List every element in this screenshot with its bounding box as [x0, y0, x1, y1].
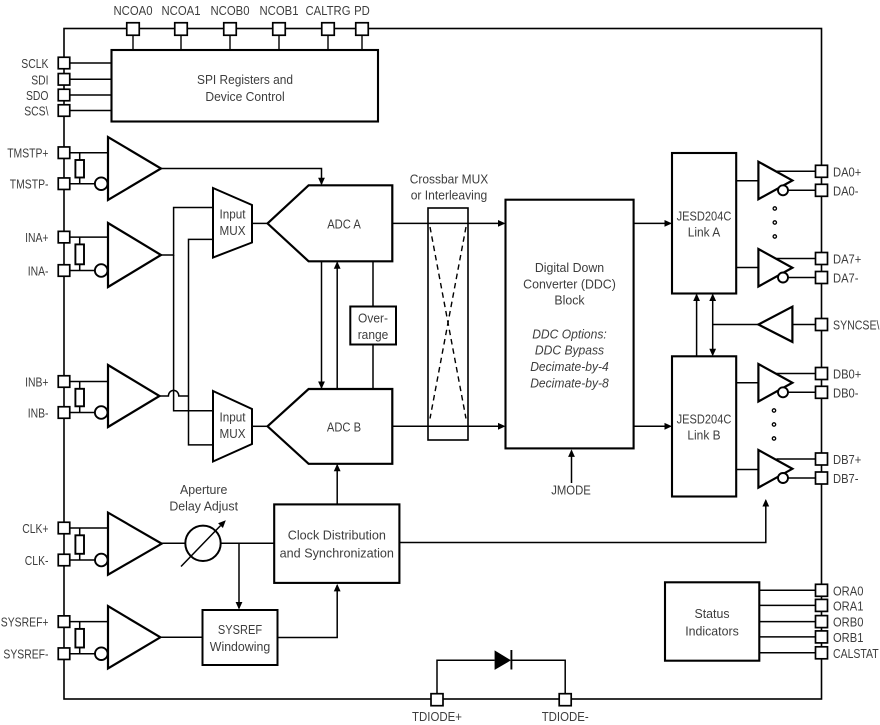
svg-text:JESD204C: JESD204C	[677, 412, 732, 427]
bubble DA7- inverted output	[778, 273, 788, 283]
wire CLK+ to buffer	[70, 527, 108, 529]
wire Status Indicators to ORA1	[759, 604, 815, 606]
svg-text:Decimate-by-8: Decimate-by-8	[530, 376, 609, 391]
svg-text:Block: Block	[554, 292, 585, 307]
wire NCOB1 stub to SPI box	[278, 35, 280, 50]
svg-text:MUX: MUX	[220, 426, 246, 441]
svg-text:CALSTAT: CALSTAT	[833, 646, 879, 661]
svg-text:SPI Registers and: SPI Registers and	[197, 72, 293, 87]
wire ADC B output to DDC block	[392, 425, 504, 427]
svg-text:ORB1: ORB1	[833, 630, 863, 645]
wire clock distribution to ADC B bottom	[336, 465, 338, 504]
bubble SYSREF- inverting input	[95, 647, 108, 660]
wire MUX B to ADC B	[252, 425, 268, 427]
wire SYSREF+ to buffer	[70, 621, 108, 623]
wire INB buffer output with crossover hop to Input MUX A and Input MUX B	[160, 390, 189, 396]
svg-text:PD: PD	[354, 3, 370, 18]
wire SYSREF- to buffer bubble	[70, 653, 95, 655]
pin CLK+	[58, 522, 70, 534]
wire INB- to buffer bubble	[70, 412, 95, 414]
wire DDC to JESD204C Link A	[634, 222, 671, 224]
block JESD204C Link B	[672, 356, 736, 496]
diode thermal diode	[495, 650, 511, 670]
svg-text:Input: Input	[220, 410, 246, 425]
pin DB7-	[816, 472, 828, 484]
svg-text:JMODE: JMODE	[551, 483, 591, 498]
wire TDIODE loop	[437, 660, 495, 694]
arrow into Clock Distribution bottom	[334, 584, 341, 592]
arrowhead of aperture delay adjust	[218, 520, 226, 528]
wire SYNCSE pin to receiver	[792, 324, 815, 326]
buffer SYSREF input	[108, 606, 160, 668]
pin SYSREF-	[58, 648, 70, 660]
svg-text:Delay Adjust: Delay Adjust	[169, 498, 238, 513]
svg-text:DB0+: DB0+	[833, 367, 861, 382]
arrow into DDC (channel A)	[498, 220, 506, 227]
wire DA7- output	[788, 277, 816, 279]
wire ADC A to Over-range	[372, 261, 374, 306]
mux Input MUX A	[213, 188, 252, 258]
svg-text:TMSTP-: TMSTP-	[10, 177, 49, 192]
arrow into DDC (channel B)	[498, 423, 506, 430]
svg-text:ADC A: ADC A	[327, 216, 361, 231]
bubble DB7- inverted output	[778, 473, 788, 483]
wire SYSREF Windowing to clock distribution	[278, 585, 338, 637]
bubble TMSTP- inverting input	[95, 177, 108, 190]
svg-text:SDI: SDI	[31, 72, 48, 87]
arrow into SYSREF Windowing top	[236, 602, 243, 610]
ellipsis dots lane A	[773, 207, 776, 210]
svg-text:SCLK: SCLK	[21, 56, 48, 71]
wire DB0- output	[788, 391, 816, 393]
resistor CLK termination	[79, 528, 81, 535]
driver DA0 output buffer	[758, 162, 792, 200]
wire INB+ to buffer	[70, 381, 108, 383]
svg-text:DB0-: DB0-	[833, 385, 859, 400]
wire DA0+ output	[777, 170, 816, 172]
pin TDIODE+	[431, 694, 443, 706]
wire SYNCSE buffer to sync net	[713, 324, 759, 326]
svg-text:INB+: INB+	[25, 375, 48, 390]
block SPI Registers and Device Control	[112, 50, 379, 122]
driver DB0 output buffer	[758, 364, 792, 402]
arrow into ADC A top	[318, 178, 325, 186]
svg-text:Link A: Link A	[688, 225, 721, 240]
wire ADC A output to DDC block	[392, 222, 504, 224]
svg-text:Digital Down: Digital Down	[535, 260, 604, 275]
svg-text:DDC Options:: DDC Options:	[532, 326, 607, 341]
buffer INB input	[108, 365, 160, 427]
ellipsis dots lane B	[772, 409, 775, 412]
pin PD	[356, 23, 369, 36]
svg-text:range: range	[358, 327, 389, 342]
svg-text:DA7-: DA7-	[833, 271, 859, 286]
svg-text:CLK-: CLK-	[25, 553, 49, 568]
wire TMSTP buffer output to ADC A top	[161, 169, 322, 185]
arrow into ADC B top	[318, 382, 325, 390]
svg-text:TMSTP+: TMSTP+	[7, 146, 48, 161]
svg-text:Clock Distribution: Clock Distribution	[288, 528, 386, 543]
wire Status Indicators to ORB1	[759, 636, 815, 638]
arrow into ADC A bottom	[334, 261, 341, 269]
svg-text:Windowing: Windowing	[210, 639, 270, 654]
pin NCOB0	[224, 23, 237, 36]
svg-text:JESD204C: JESD204C	[677, 208, 732, 223]
svg-text:NCOA1: NCOA1	[162, 3, 201, 18]
pin NCOA0	[127, 23, 140, 36]
pin INB-	[58, 407, 70, 419]
wire DB0+ output	[777, 373, 816, 375]
pin SCS\	[58, 105, 70, 117]
svg-text:DDC Bypass: DDC Bypass	[535, 343, 605, 358]
svg-text:Status: Status	[695, 606, 730, 621]
wire CLK- to buffer bubble	[70, 559, 95, 561]
svg-text:INA+: INA+	[25, 230, 48, 245]
wire DDC to JESD204C Link B	[634, 425, 671, 427]
svg-text:and Synchronization: and Synchronization	[280, 545, 394, 560]
svg-text:SYNCSE\: SYNCSE\	[833, 318, 880, 333]
svg-text:Indicators: Indicators	[685, 624, 739, 639]
svg-text:INA-: INA-	[28, 264, 49, 279]
pin DB7+	[816, 453, 828, 465]
arrow serializer clock	[762, 499, 769, 507]
pin ORB0	[816, 616, 828, 628]
resistor INB termination	[79, 382, 81, 389]
wire MUX A to ADC A	[252, 222, 268, 224]
svg-text:DB7-: DB7-	[833, 471, 859, 486]
buffer TMSTP input	[108, 137, 161, 200]
arrow into ADC B bottom	[334, 464, 341, 472]
pin DB0-	[816, 386, 828, 398]
svg-text:SYSREF+: SYSREF+	[1, 615, 49, 630]
wire Link A to DA7 driver	[736, 267, 758, 269]
pin CALTRG	[322, 23, 335, 36]
pin INA-	[58, 265, 70, 277]
wire PD stub to SPI box	[361, 35, 363, 50]
chip outer border	[64, 29, 822, 700]
block JESD204C Link A	[672, 153, 736, 294]
pin DA7+	[816, 253, 828, 265]
wire TMSTP+ to buffer	[70, 152, 108, 154]
pin TDIODE-	[559, 694, 571, 706]
pin DB0+	[816, 368, 828, 380]
mux Input MUX B	[213, 391, 252, 462]
svg-text:ORA0: ORA0	[833, 583, 863, 598]
svg-text:ADC B: ADC B	[327, 419, 361, 434]
pin DA0-	[816, 184, 828, 196]
dashed crossbar X	[430, 227, 466, 419]
wire Link B to Link A	[696, 295, 698, 357]
svg-text:Over-: Over-	[358, 311, 388, 326]
pin ORA1	[816, 599, 828, 611]
redraw wires over crossbar	[428, 222, 468, 224]
pin TMSTP+	[58, 147, 70, 159]
svg-text:NCOA0: NCOA0	[114, 3, 153, 18]
block SYSREF Windowing	[203, 610, 278, 665]
svg-text:Input: Input	[220, 207, 246, 222]
wire DB7+ output	[777, 458, 816, 460]
wire SYSREF buffer to SYSREF Windowing	[160, 636, 202, 638]
arrow into Link A	[665, 220, 673, 227]
wire DA7+ output	[777, 258, 816, 260]
aperture delay adjust (variable delay)	[185, 526, 220, 561]
wire Status Indicators to ORA0	[759, 589, 815, 591]
pin INA+	[58, 231, 70, 243]
pin DA7-	[816, 272, 828, 284]
wire CLK buffer to aperture delay	[162, 542, 186, 544]
pin NCOA1	[175, 23, 188, 36]
svg-text:Decimate-by-4: Decimate-by-4	[530, 359, 609, 374]
svg-text:NCOB1: NCOB1	[260, 3, 299, 18]
block Status Indicators	[665, 582, 759, 660]
svg-text:Link B: Link B	[687, 428, 720, 443]
wire NCOA1 stub to SPI box	[180, 35, 182, 50]
bubble INB- inverting input	[95, 406, 108, 419]
pin NCOB1	[273, 23, 286, 36]
pin CLK-	[58, 554, 70, 566]
pin SDO	[58, 89, 70, 101]
svg-text:or Interleaving: or Interleaving	[411, 188, 488, 203]
pin INB+	[58, 376, 70, 388]
wire DA0- output	[788, 189, 816, 191]
wire Link B to DB0 driver	[736, 382, 758, 384]
svg-text:SYSREF: SYSREF	[218, 622, 262, 637]
arrow into Link A bottom	[693, 294, 700, 302]
block Clock Distribution and Synchronization	[274, 504, 399, 583]
svg-text:DA0+: DA0+	[833, 164, 861, 179]
wire Link A to DA0 driver	[736, 180, 758, 182]
wire SCS\ to SPI box	[70, 110, 112, 112]
wire INA buffer output to Input MUX A and Input MUX B	[161, 208, 213, 256]
svg-text:MUX: MUX	[220, 223, 246, 238]
arrow into DDC bottom	[568, 449, 575, 457]
driver DB7 output buffer	[758, 450, 792, 488]
wire INA- to buffer bubble	[70, 270, 95, 272]
pin SCLK	[58, 57, 70, 69]
wire branch to SYSREF windowing	[238, 543, 240, 608]
bubble DB0- inverted output	[778, 387, 788, 397]
block Digital Down Converter (DDC)	[506, 200, 634, 449]
resistor TMSTP termination	[79, 153, 81, 160]
arrow into Link A bottom (sync)	[709, 294, 716, 302]
bubble DA0- inverted output	[778, 185, 788, 195]
wire TMSTP- to buffer bubble	[70, 183, 95, 185]
svg-text:SDO: SDO	[26, 88, 49, 103]
wire Status Indicators to ORB0	[759, 621, 815, 623]
wire ADC A bottom to ADC B top	[321, 261, 323, 387]
svg-text:TDIODE+: TDIODE+	[412, 709, 462, 724]
svg-text:CLK+: CLK+	[22, 521, 48, 536]
wire clock distribution to output drivers	[399, 500, 765, 542]
wire JMODE into DDC bottom	[571, 451, 573, 483]
pin SYNCSE\	[816, 319, 828, 331]
driver DA7 output buffer	[758, 249, 792, 287]
wire SDO to SPI box	[70, 94, 112, 96]
resistor INA termination	[79, 237, 81, 244]
pin DA0+	[816, 165, 828, 177]
resistor SYSREF termination	[79, 622, 81, 629]
block Crossbar MUX or Interleaving	[428, 208, 468, 440]
svg-text:ORB0: ORB0	[833, 615, 863, 630]
svg-text:SCS\: SCS\	[24, 104, 49, 119]
wire INA+ to buffer	[70, 236, 108, 238]
pin CALSTAT	[816, 647, 828, 659]
wire NCOB0 stub to SPI box	[229, 35, 231, 50]
svg-text:INB-: INB-	[28, 406, 49, 421]
buffer INA input	[108, 223, 161, 287]
svg-text:DA7+: DA7+	[833, 252, 861, 267]
svg-text:SYSREF-: SYSREF-	[3, 647, 48, 662]
block Over-range	[350, 307, 396, 345]
svg-text:Converter (DDC): Converter (DDC)	[523, 276, 616, 291]
receiver SYNCSE input buffer	[758, 307, 792, 342]
pin ORA0	[816, 584, 828, 596]
pin SYSREF+	[58, 616, 70, 628]
bubble INA- inverting input	[95, 264, 108, 277]
wire Status Indicators to CALSTAT	[759, 652, 815, 654]
pin TMSTP-	[58, 178, 70, 190]
pin ORB1	[816, 631, 828, 643]
wire aperture delay to clock distribution	[221, 542, 275, 544]
svg-text:CALTRG: CALTRG	[306, 3, 351, 18]
wire SCLK to SPI box	[70, 62, 112, 64]
svg-text:NCOB0: NCOB0	[211, 3, 250, 18]
wire CALTRG stub to SPI box	[327, 35, 329, 50]
svg-text:Aperture: Aperture	[180, 482, 227, 497]
wire ADC B top to ADC A bottom (clock)	[336, 263, 338, 389]
buffer CLK input	[108, 513, 162, 575]
wire SDI to SPI box	[70, 78, 112, 80]
svg-text:ORA1: ORA1	[833, 598, 863, 613]
bubble CLK- inverting input	[95, 554, 108, 567]
wire Link B to DB7 driver	[736, 469, 758, 471]
adc ADC B	[268, 389, 393, 464]
svg-text:DB7+: DB7+	[833, 452, 861, 467]
arrow into Link B	[665, 423, 673, 430]
wire Over-range to ADC B	[372, 345, 374, 390]
wire Link A/Link B sync	[712, 295, 714, 355]
adc ADC A	[268, 185, 393, 261]
wire NCOA0 stub to SPI box	[132, 35, 134, 50]
svg-text:Device Control: Device Control	[205, 89, 284, 104]
arrow into Link B top (sync)	[709, 349, 716, 357]
svg-text:Crossbar MUX: Crossbar MUX	[410, 172, 489, 187]
pin SDI	[58, 74, 70, 86]
svg-text:TDIODE-: TDIODE-	[542, 709, 589, 724]
wire DB7- output	[788, 477, 816, 479]
svg-text:DA0-: DA0-	[833, 183, 859, 198]
